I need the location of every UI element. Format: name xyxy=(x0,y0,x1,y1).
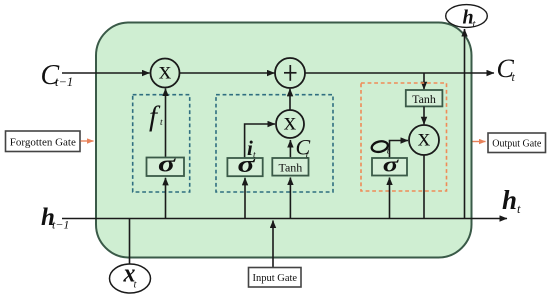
svg-text:t: t xyxy=(512,70,516,84)
svg-text:Tanh: Tanh xyxy=(412,92,436,106)
svg-text:σ: σ xyxy=(158,151,176,177)
svg-text:Input Gate: Input Gate xyxy=(252,273,297,284)
svg-text:x: x xyxy=(159,58,172,85)
svg-text:Tanh: Tanh xyxy=(278,160,302,174)
svg-text:Output Gate: Output Gate xyxy=(492,139,542,150)
svg-text:σ: σ xyxy=(383,152,400,177)
svg-text:t: t xyxy=(306,151,309,161)
svg-text:Forgotten Gate: Forgotten Gate xyxy=(10,137,76,149)
svg-text:t: t xyxy=(517,202,521,216)
svg-text:h: h xyxy=(502,185,517,215)
svg-text:t: t xyxy=(160,118,163,128)
svg-text:t−1: t−1 xyxy=(55,75,73,89)
svg-text:t: t xyxy=(387,147,390,157)
svg-text:x: x xyxy=(418,125,431,152)
svg-text:x: x xyxy=(284,109,297,136)
svg-text:t: t xyxy=(253,151,256,161)
svg-text:t−1: t−1 xyxy=(52,218,69,232)
